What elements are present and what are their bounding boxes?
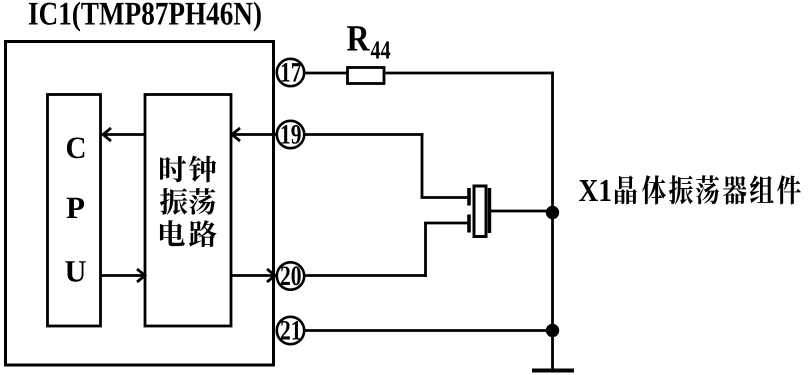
wire to crystal lower plate	[424, 222, 467, 225]
crystal label char zu	[750, 175, 774, 203]
wire pin19 right	[305, 133, 423, 136]
pin 21 number	[281, 321, 300, 340]
crystal label char jian	[777, 175, 801, 204]
CPU block	[48, 95, 101, 327]
arrowhead into clock block right edge	[232, 128, 240, 141]
pin 19 circle	[277, 121, 304, 148]
ground symbol	[532, 369, 574, 373]
wire to crystal upper plate	[421, 196, 468, 199]
wire R44 to right rail	[386, 72, 554, 75]
wire pin20 up to crystal	[424, 223, 427, 277]
arrowhead into clock block	[137, 269, 145, 282]
crystal label char zhen	[669, 175, 693, 204]
pin 21 circle	[277, 317, 304, 344]
wire crystal to right rail	[491, 210, 553, 213]
pin 19 number	[282, 125, 301, 144]
pin 17 number	[282, 63, 301, 81]
CPU label P	[67, 198, 85, 218]
wire clock to CPU top	[103, 133, 145, 136]
clock label char dian	[160, 220, 185, 246]
junction node pin21-rail	[546, 324, 559, 337]
crystal X1 upper left plate	[467, 188, 471, 206]
pin 20 number	[281, 266, 301, 285]
pin 17 circle	[277, 59, 304, 86]
wire clock block to pin20	[231, 274, 274, 277]
clock label char shi	[160, 156, 186, 182]
wire pin19 down to crystal	[421, 133, 424, 197]
crystal X1 lower left plate	[467, 215, 471, 233]
clock label char zhen	[160, 188, 187, 215]
crystal label X1	[579, 180, 611, 201]
arrowhead into pin20	[267, 269, 275, 282]
crystal label char ti	[642, 175, 666, 204]
crystal label char dang	[696, 175, 719, 204]
clock label char lu	[189, 220, 217, 247]
arrowhead into CPU	[103, 128, 111, 141]
IC IC1 label IC1(TMP87PH46N)	[29, 2, 261, 32]
pin 20 circle	[277, 262, 304, 289]
crystal label char qi	[723, 176, 747, 205]
IC IC1 body outline	[6, 42, 274, 366]
crystal label char jing	[615, 175, 637, 204]
wire pin17 to R44	[305, 72, 348, 75]
clock label char dang	[189, 188, 215, 215]
resistor R44 label subscript 44	[371, 41, 390, 58]
CPU label U	[65, 261, 85, 282]
crystal X1 body	[474, 186, 486, 237]
clock label char zhong	[189, 156, 216, 183]
wire right vertical rail	[551, 72, 554, 370]
crystal X1 right plate	[488, 188, 491, 233]
wire pin21 to rail	[305, 329, 553, 332]
wire clock block to pin19	[232, 133, 277, 136]
wire pin20 right	[305, 274, 427, 277]
resistor R44 label R	[347, 26, 370, 50]
junction node crystal-rail	[546, 206, 559, 219]
clock oscillator block	[145, 95, 231, 327]
wire CPU to clock bottom	[101, 274, 144, 277]
CPU label C	[67, 137, 84, 158]
resistor R44 body	[348, 68, 385, 84]
